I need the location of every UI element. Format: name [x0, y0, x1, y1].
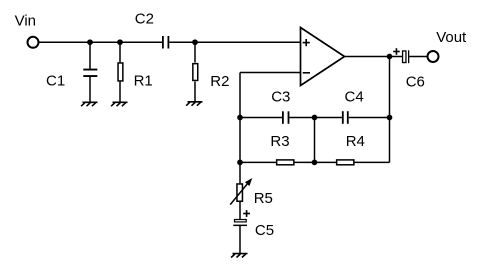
svg-text:C2: C2: [135, 11, 154, 28]
svg-text:C4: C4: [345, 88, 364, 105]
svg-text:C5: C5: [255, 222, 274, 239]
svg-text:R4: R4: [346, 133, 365, 150]
svg-text:Vout: Vout: [436, 29, 467, 46]
svg-text:Vin: Vin: [15, 13, 36, 30]
svg-text:C1: C1: [46, 73, 65, 90]
svg-text:R2: R2: [210, 73, 229, 90]
svg-text:C6: C6: [406, 74, 425, 91]
svg-text:R5: R5: [254, 190, 273, 207]
svg-text:R3: R3: [270, 133, 289, 150]
svg-text:C3: C3: [271, 88, 290, 105]
svg-text:R1: R1: [134, 73, 153, 90]
